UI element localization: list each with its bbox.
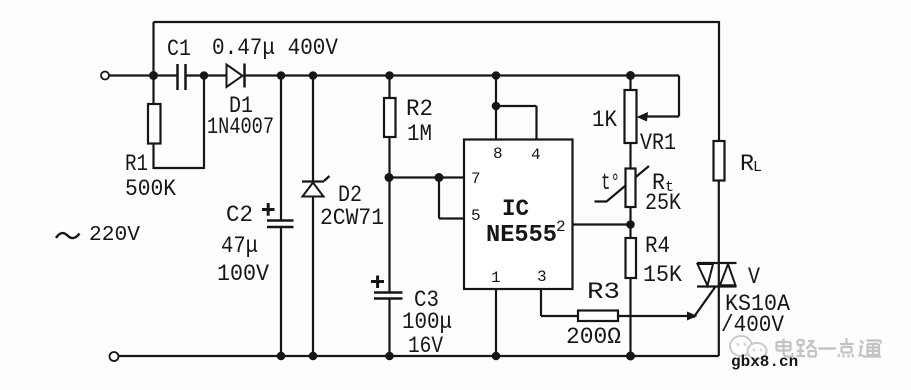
- svg-text:IC: IC: [502, 196, 529, 222]
- svg-text:NE555: NE555: [486, 222, 557, 249]
- svg-text:200Ω: 200Ω: [566, 324, 621, 350]
- svg-text:8: 8: [493, 145, 503, 163]
- svg-text:VR1: VR1: [640, 130, 676, 156]
- svg-text:1N4007: 1N4007: [207, 114, 274, 140]
- svg-text:100V: 100V: [217, 261, 269, 287]
- svg-text:R3: R3: [587, 279, 620, 305]
- svg-text:7: 7: [471, 170, 481, 188]
- svg-text:25K: 25K: [645, 190, 681, 216]
- svg-text:V: V: [748, 264, 760, 290]
- svg-text:C1: C1: [167, 36, 191, 62]
- svg-text:2: 2: [556, 218, 566, 236]
- svg-text:47μ: 47μ: [221, 233, 258, 259]
- svg-text:3: 3: [537, 268, 547, 286]
- svg-text:R4: R4: [645, 233, 670, 259]
- svg-text:220V: 220V: [89, 224, 140, 247]
- svg-text:5: 5: [471, 207, 481, 225]
- svg-text:1: 1: [491, 269, 501, 287]
- svg-text:/400V: /400V: [721, 312, 784, 338]
- svg-text:R2: R2: [406, 96, 433, 122]
- svg-text:100μ: 100μ: [402, 309, 452, 335]
- svg-text:1K: 1K: [592, 107, 617, 133]
- svg-text:gbx8.cn: gbx8.cn: [731, 353, 798, 371]
- svg-text:4: 4: [531, 146, 541, 164]
- svg-text:2CW71: 2CW71: [320, 205, 384, 231]
- svg-text:15K: 15K: [643, 262, 682, 288]
- svg-text:t°: t°: [601, 170, 620, 196]
- svg-text:0.47μ 400V: 0.47μ 400V: [212, 35, 338, 61]
- svg-text:500K: 500K: [125, 176, 176, 202]
- svg-text:1M: 1M: [407, 121, 432, 147]
- svg-text:R1: R1: [125, 151, 148, 177]
- svg-text:L: L: [753, 159, 762, 176]
- svg-text:C2: C2: [226, 202, 253, 228]
- svg-text:16V: 16V: [408, 333, 443, 359]
